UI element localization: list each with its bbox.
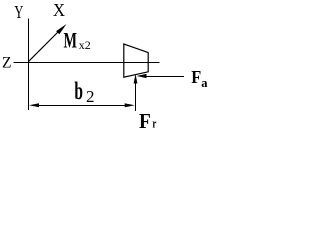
Y axis / left extension line xyxy=(28,19,30,111)
svg-text:Z: Z xyxy=(2,54,12,71)
svg-text:r: r xyxy=(152,116,156,131)
svg-text:F: F xyxy=(191,67,201,87)
svg-text:M: M xyxy=(64,28,78,53)
svg-text:X: X xyxy=(53,0,65,20)
dimension line b2 xyxy=(29,103,135,107)
svg-text:F: F xyxy=(139,109,151,133)
svg-text:Y: Y xyxy=(14,2,23,22)
bevel gear section xyxy=(124,44,148,77)
moment arrow Mx2 (X direction) xyxy=(28,24,66,62)
svg-text:a: a xyxy=(201,76,208,90)
force Fr arrow xyxy=(134,74,138,111)
svg-text:2: 2 xyxy=(86,87,95,106)
Z axis line xyxy=(14,62,160,64)
svg-text:x2: x2 xyxy=(79,38,91,52)
svg-text:b: b xyxy=(74,76,83,105)
force Fa arrow xyxy=(137,74,185,78)
